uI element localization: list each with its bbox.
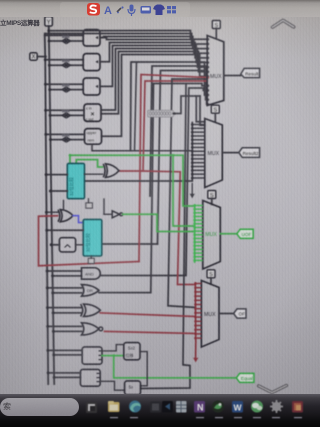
- wire and gate G1 input A from X bus: [47, 270, 81, 272]
- register U10 (small latch): [59, 238, 75, 252]
- wire negator output to result mux input 5: [100, 46, 207, 87]
- taskbar icon logisim: [212, 401, 224, 413]
- result2 mux input ladder: [191, 123, 205, 179]
- wire shifter B2 inputs from buses: [48, 372, 80, 374]
- bit-width gate on row subtractor U2: [62, 60, 72, 68]
- select pin S4: [207, 270, 215, 278]
- extra riser F: [135, 62, 137, 151]
- wire nor gate G4 input A from X bus: [48, 325, 82, 327]
- green wire buffer U9 output to mux3 comb: [123, 214, 195, 231]
- X vertical bus: [45, 35, 49, 384]
- wire S3 to mux3 select: [211, 199, 213, 205]
- output pin Equal: [236, 373, 254, 382]
- multiplier U4: [84, 104, 101, 121]
- label probe under comparator C2: [88, 258, 94, 263]
- green wire comparator B top to xor U7 input: [76, 160, 102, 167]
- nor gate G4: [82, 323, 99, 335]
- splitter end arrow below ladder: [190, 194, 195, 199]
- taskbar icon dark app: [150, 402, 161, 413]
- wire riser C to result mux: [158, 71, 208, 245]
- wire comparator C1 right pin to xor U7 lower input: [85, 173, 103, 175]
- wire or gate G2 input B from Y bus: [53, 292, 82, 294]
- xor gate U8 (equality xor): [58, 210, 73, 222]
- shift unit M1 (labeled box): [124, 343, 140, 360]
- red wire riser R1 to result mux input: [139, 75, 207, 262]
- wire multiplier carry output to result mux input 7: [101, 52, 207, 114]
- wire xor gate G3 input A from X bus: [47, 307, 81, 309]
- wire or gate G2 input A from X bus: [47, 287, 81, 289]
- wire lower input row negator U3: [50, 89, 83, 91]
- output pin Result: [241, 68, 260, 77]
- bit-width gate on row adder U1: [62, 35, 72, 43]
- wire comparator C2 input from bus: [47, 229, 83, 231]
- wire upper input row negator U3: [45, 83, 83, 85]
- taskbar icon settings gear: [270, 400, 283, 413]
- taskbar icon word W: [232, 401, 243, 413]
- wire buffer U9 input: [104, 213, 112, 215]
- wire comparator C1 inputs from buses: [46, 174, 67, 176]
- toolbar shirt icon: [153, 5, 165, 16]
- wire divider quotient output to result mux input 8: [102, 55, 208, 137]
- scroll chevron down (bottom right): [259, 385, 287, 392]
- xor gate U7 (compare xor): [103, 164, 119, 178]
- green wire comparator A top to mux3 comb: [70, 155, 195, 206]
- blue wire xor U8 output to comparator C2: [73, 216, 83, 223]
- wire adder carry output to result mux input 3: [100, 38, 207, 54]
- Y vertical bus: [49, 27, 54, 384]
- multiplexer MUX4 (OF): [201, 281, 219, 348]
- shifter box B1: [82, 347, 102, 364]
- wire xor gate G3 input B from Y bus: [53, 312, 81, 314]
- output pin Result2: [239, 148, 260, 158]
- green wire shifter B1 to shift unit M1: [102, 355, 124, 357]
- wire Y bus top branch to result mux input 0: [49, 31, 207, 40]
- taskbar icon underline indicators: [110, 417, 302, 418]
- adder U1: [83, 30, 100, 46]
- constant 00000000: [148, 110, 173, 117]
- wire riser to result2 mux top: [200, 96, 205, 125]
- sogou S logo: [87, 3, 100, 16]
- wire nor gate G4 input B from Y bus: [53, 330, 81, 332]
- taskbar icon onenote N: [194, 401, 205, 413]
- wire lower input row multiplier: [50, 114, 84, 116]
- bit-width gate on divider row: [62, 134, 72, 142]
- label probe under comparator C1: [86, 203, 93, 208]
- taskbar icon wechat: [251, 401, 263, 413]
- input pin Y: [45, 17, 53, 27]
- toolbar microphone icon: [128, 5, 135, 17]
- wire lower input row divider: [50, 139, 84, 141]
- wire mux4 output to OF pin: [219, 313, 234, 315]
- wire long riser D down to bottom shifters: [168, 79, 196, 308]
- red wire xor U7 output riser R2 to result mux input: [119, 81, 207, 171]
- wire S2 to mux2 select: [214, 113, 216, 121]
- select pin S3: [208, 191, 216, 199]
- wire S1 to mux1 select: [215, 29, 217, 39]
- output pin UOF: [237, 229, 253, 238]
- red wire feedback loop to xor U8 input: [39, 216, 140, 266]
- green riser for mux3 comb: [194, 205, 196, 262]
- green wire branch riser to mux3 comb mid: [173, 155, 195, 226]
- comparator C1 (32-bit compare): [67, 163, 84, 198]
- taskbar icon file explorer: [108, 401, 120, 412]
- wire register U10 output to comparator C2: [76, 244, 84, 246]
- buffer U9 with green output: [112, 211, 123, 218]
- junction X bus: [44, 55, 47, 58]
- wire upper input row multiplier: [46, 109, 84, 111]
- wire OR gate output to result mux (long riser): [99, 84, 207, 293]
- wire AND gate output to result mux (long riser): [100, 88, 207, 276]
- wire shifter output riser A to result mux: [131, 62, 208, 151]
- wire shifter B2 output to shift unit M2: [100, 381, 124, 390]
- divider U5: [85, 129, 102, 145]
- ladder riser for result2 mux inputs: [85, 123, 193, 182]
- wire lower input row subtractor U2: [49, 64, 83, 66]
- scroll chevron up (top right): [273, 20, 294, 27]
- wire X pin to X bus: [37, 56, 45, 58]
- taskbar icon edge browser: [129, 401, 141, 413]
- green wire branch down to Equal wire: [114, 356, 237, 378]
- multiplexer MUX2 (Result2): [205, 119, 223, 188]
- red wire xor gate G3 output to overflow comb: [100, 313, 195, 317]
- xor gate G3: [84, 304, 101, 316]
- toolbar grid icon: [167, 6, 176, 13]
- or gate G2: [82, 285, 100, 297]
- mux4 input comb (red): [194, 282, 201, 339]
- wire constant to result2 mux: [173, 96, 200, 114]
- wire register U10 input from bus: [51, 244, 59, 246]
- wire divider rem output to result2 ladder riser: [92, 144, 192, 151]
- wire S4 to mux4 select: [210, 278, 212, 284]
- wire mux2 output to Result2 pin: [222, 152, 239, 154]
- green wire mux3 output to UOF pin: [220, 233, 237, 235]
- red riser for mux4 comb: [194, 283, 197, 357]
- wire and gate G1 input B from Y bus: [53, 275, 82, 277]
- wire adder sum output to result mux input 2: [100, 37, 207, 49]
- wire teal comparator right output to riser C: [102, 243, 158, 245]
- wire multiplier product output to result mux input 6: [101, 49, 207, 111]
- multiplexer MUX3 (UOF): [203, 201, 221, 270]
- output pin OF: [234, 309, 246, 318]
- taskbar icons: [0, 394, 320, 427]
- taskbar icon office colorful: [292, 401, 303, 413]
- wire mux1 output to Result pin: [224, 75, 241, 77]
- toolbar pen icon: [117, 6, 124, 13]
- wire comparator output riser B to result mux: [150, 66, 207, 196]
- window title MIPS ALU: [0, 17, 44, 27]
- wire xor U8 upper input from bus: [46, 211, 57, 213]
- wire upper input row adder U1: [45, 34, 83, 36]
- wire shifter B1 to shift unit M1 (black): [102, 345, 124, 351]
- wire long riser E down to bottom loop: [141, 84, 191, 389]
- comparator C2 (32-bit compare): [83, 219, 102, 256]
- wire subtractor output to result mux input 4: [100, 43, 207, 62]
- and gate G1: [82, 268, 101, 279]
- wire Y pin to Y bus: [48, 26, 50, 31]
- wire shifter B1 inputs from buses: [48, 349, 82, 351]
- red wire nor gate G4 output to overflow comb: [105, 331, 196, 333]
- taskbar icon spreadsheet: [176, 401, 187, 413]
- select pin S1: [212, 21, 220, 30]
- taskbar search box: [0, 398, 79, 416]
- wire upper input row subtractor U2: [45, 59, 83, 61]
- multiplexer MUX1 (Result): [207, 36, 224, 106]
- wire shift unit M1 output right: [140, 352, 147, 386]
- negator U3: [83, 78, 100, 95]
- bit-width gate on row negator U3: [62, 84, 72, 92]
- mux3 input comb (green): [193, 204, 203, 262]
- shifter box B2: [80, 369, 100, 386]
- wire xor U8 top stub to comparator C1: [63, 201, 65, 210]
- sogou input toolbar: [60, 0, 190, 20]
- red wire xor U7 output down to overflow comb: [143, 171, 195, 285]
- select pin S2: [211, 105, 219, 113]
- toolbar keyboard icon: [141, 6, 152, 14]
- subtractor U2: [83, 54, 100, 71]
- wire lower input row adder U1: [49, 40, 83, 42]
- taskbar icon vscode dark: [162, 401, 173, 413]
- shift unit M2 (labeled box): [125, 381, 141, 395]
- wire X bus top branch to result mux input 1: [45, 34, 208, 44]
- wire upper input row divider: [46, 133, 85, 135]
- splitter end arrow below mux4 comb (red): [193, 358, 198, 363]
- taskbar icon task-view: [86, 402, 97, 413]
- input pin X: [30, 53, 37, 61]
- bit-width gate on multiplier row: [62, 110, 72, 118]
